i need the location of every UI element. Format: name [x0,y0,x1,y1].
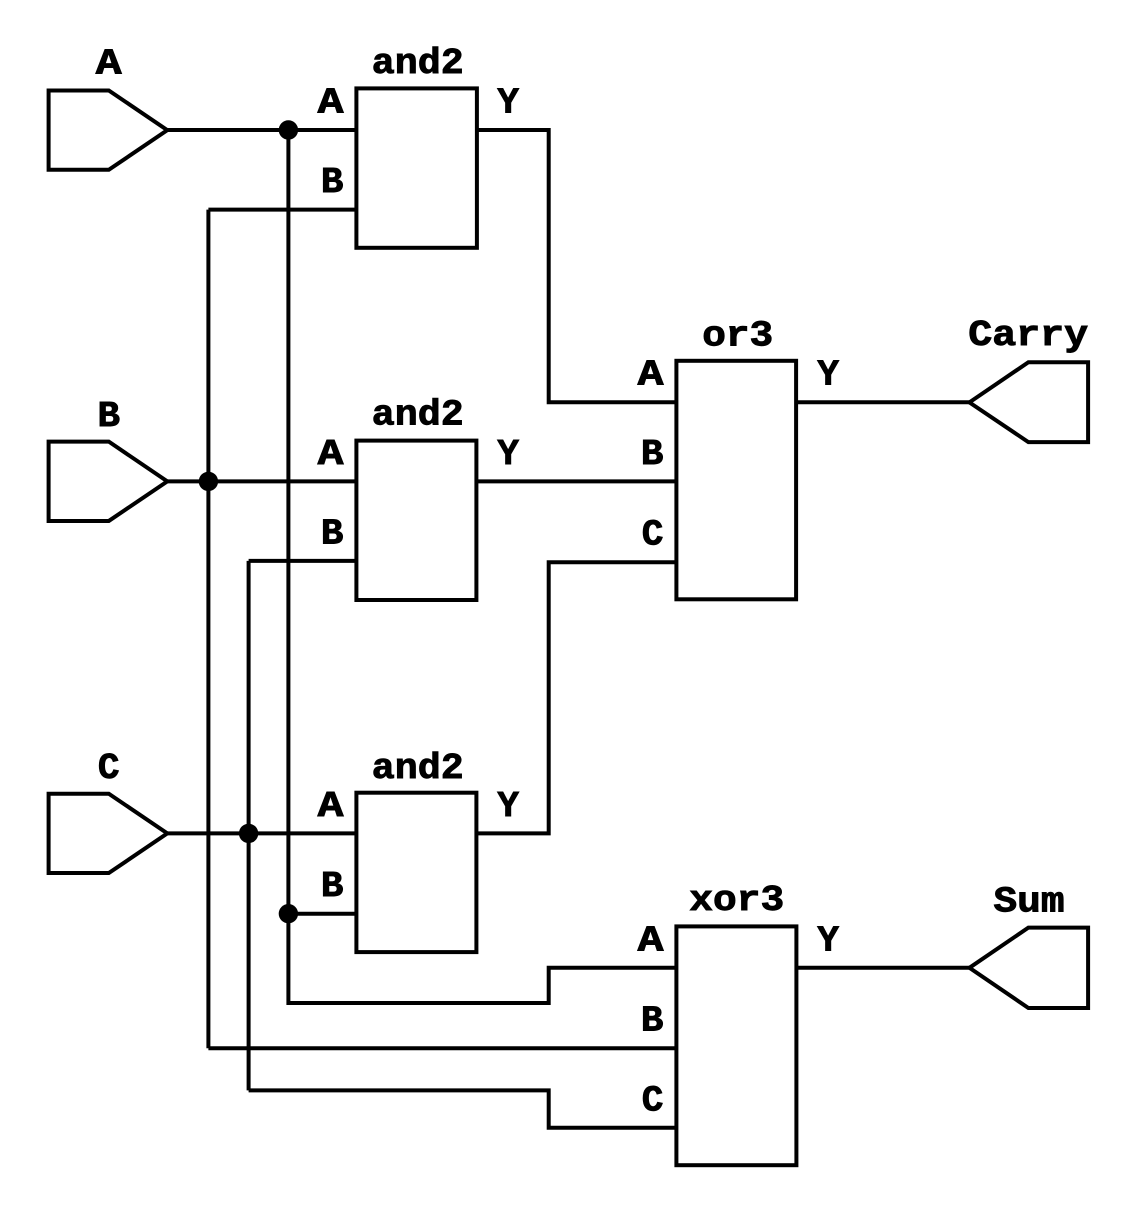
input port B [49,442,168,521]
svg-text:and2: and2 [372,394,464,435]
wire net C: vertical riser [247,561,251,1091]
svg-text:B: B [321,866,344,907]
wire net B: branch to U5 pin B [208,1046,676,1050]
input port C [49,794,168,873]
svg-text:A: A [318,434,344,475]
svg-text:B: B [97,396,120,437]
junction net A at U1 input [279,120,298,139]
wire U3 Y to U4 pin C [476,562,676,833]
svg-text:A: A [638,355,664,396]
svg-text:A: A [318,83,344,124]
svg-text:Carry: Carry [968,315,1088,356]
svg-text:A: A [96,43,122,84]
wire net A: branch to U5 pin A [288,914,676,1003]
wire net C: branch to U5 pin C [249,1090,677,1127]
svg-text:xor3: xor3 [689,880,784,921]
svg-text:B: B [321,162,344,203]
svg-text:C: C [642,515,664,556]
wire net A: branch to U3 pin B [288,912,356,916]
wire U1 Y to U4 pin A [477,130,677,402]
svg-text:B: B [641,434,664,475]
junction net C at U3 input [239,824,258,843]
svg-text:Y: Y [497,786,519,827]
svg-text:A: A [638,920,664,961]
svg-text:Y: Y [817,355,839,396]
junction net B at U2 input [199,472,218,491]
svg-text:Y: Y [497,434,519,475]
and-gate U2 (and2) box [356,441,476,600]
svg-text:and2: and2 [372,43,464,84]
wire U2 Y to U4 pin B [476,479,676,483]
input port A [49,91,168,170]
wire net B: vertical drop [206,210,210,1049]
svg-text:Y: Y [817,920,839,961]
svg-text:C: C [98,748,120,789]
output port Sum [969,928,1088,1008]
and-gate U3 (and2) box [356,793,476,952]
or-gate U4 (or3) box [676,361,796,600]
svg-text:B: B [321,513,344,554]
wire net B: port B to U2 pin A [167,479,356,483]
junction net A at U3 pin B [279,904,298,923]
wire net A: port A to U1 pin A [167,128,356,132]
svg-text:or3: or3 [702,316,773,357]
wire net B: branch to U1 pin B [208,208,356,212]
svg-text:and2: and2 [372,748,464,789]
output port Carry [969,362,1088,442]
svg-text:Y: Y [497,83,519,124]
and-gate U1 (and2) box [356,88,477,247]
wire U5 Y to port Sum [796,966,969,970]
svg-text:C: C [642,1080,664,1121]
wire net C: port C to U3 pin A [167,831,356,835]
wire net A: vertical drop [286,130,290,914]
wire U4 Y to port Carry [796,400,969,404]
svg-text:B: B [641,1000,664,1041]
svg-text:A: A [318,786,344,827]
svg-text:Sum: Sum [994,882,1065,923]
wire net C: branch to U2 pin B [249,559,357,563]
xor-gate U5 (xor3) box [676,926,796,1165]
